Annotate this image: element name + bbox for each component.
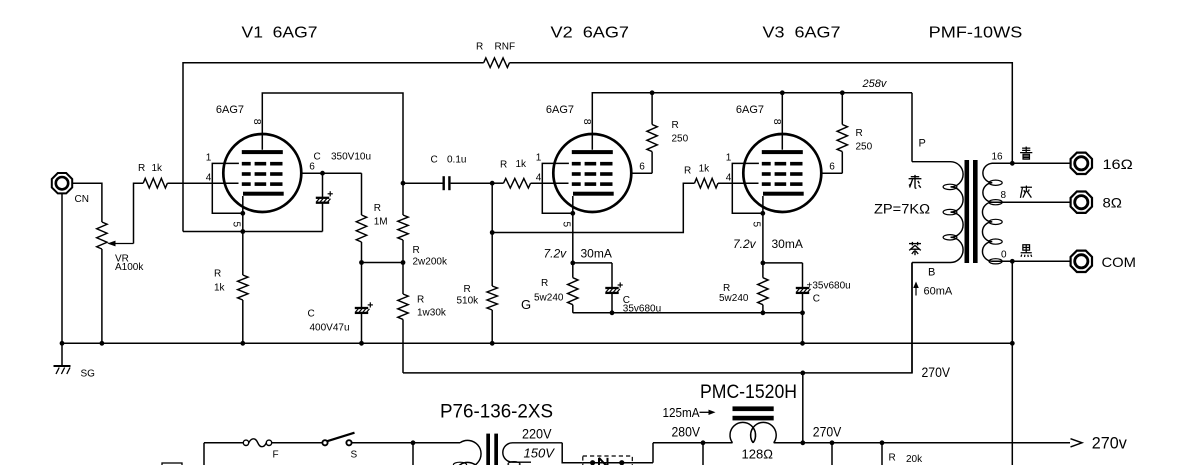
ground junction VR [100, 341, 105, 346]
junction rail V3 plate [780, 90, 785, 95]
svg-text:150V: 150V [524, 445, 556, 460]
svg-text:C: C [314, 152, 321, 163]
svg-text:SG: SG [81, 369, 96, 380]
wire V2 pin 6 stub [631, 172, 652, 174]
svg-text:1k: 1k [516, 159, 528, 170]
junction grid node [490, 181, 495, 186]
junction V3 cathode node [761, 261, 766, 266]
tube V3 cathode bar [763, 192, 804, 196]
terminal COM [1071, 251, 1092, 272]
junction cathode bus ground [800, 341, 805, 346]
tube V2 6AG7 envelope [553, 134, 631, 212]
wire V2 plate pin8 to B+ rail [592, 93, 912, 150]
svg-text:0.1u: 0.1u [447, 155, 466, 166]
tube V2 plate bar [572, 150, 613, 154]
wire G bus to V3 grid [492, 183, 694, 232]
transformer T1 secondary winding upper (16-8) [983, 163, 992, 202]
svg-text:30mA: 30mA [581, 246, 612, 260]
svg-text:G: G [521, 297, 531, 312]
svg-text:270V: 270V [813, 425, 842, 440]
capacitor C 0.1u coupling [443, 176, 445, 190]
wire inlet to fuse [204, 442, 244, 444]
svg-text:P76-136-2XS: P76-136-2XS [440, 402, 553, 423]
transformer T1 primary winding [912, 162, 963, 263]
resistor R RNF feedback [484, 58, 510, 68]
svg-text:R: R [684, 165, 691, 176]
svg-text:8: 8 [251, 119, 263, 125]
wire feedback left vertical [183, 63, 484, 232]
svg-text:R: R [374, 203, 381, 214]
wire choke to output node [774, 442, 1070, 444]
svg-text:PMC-1520H: PMC-1520H [700, 382, 797, 403]
svg-text:COM: COM [1102, 254, 1137, 270]
svg-text:PMF-10WS: PMF-10WS [929, 25, 1023, 42]
potentiometer VR A100k [97, 222, 107, 249]
junction R1M bottom node B [359, 260, 364, 265]
svg-text:C: C [813, 293, 820, 304]
svg-text:5: 5 [751, 222, 762, 228]
svg-text:C: C [308, 308, 315, 319]
svg-text:350V10u: 350V10u [331, 152, 371, 163]
wire 16 ohm tap [992, 162, 1071, 164]
wire rectifier up to 280V line [652, 443, 654, 463]
resistor R 5w240 V3 cathode [758, 278, 768, 305]
wire bleeder drop [881, 443, 883, 465]
tube V1 grid dashes [242, 162, 283, 186]
terminal 8 ohm [1071, 192, 1092, 213]
resistor R 1M screen feed [361, 173, 363, 215]
tube V2 cathode junction [570, 211, 575, 216]
wire feedback right to 16 ohm tap [510, 63, 1013, 164]
wire 220V drop to rectifier [562, 443, 583, 463]
junction V3 bypass cap bottom [800, 310, 805, 315]
svg-text:A100k: A100k [115, 262, 144, 273]
label kanji gray (8 tap) [1020, 186, 1032, 198]
wire V1 plate pin8 to node A [262, 93, 403, 215]
wire primary B down [911, 263, 913, 373]
label kanji black (0 tap) [1021, 245, 1032, 257]
svg-text:R: R [464, 284, 471, 295]
wire switch to primary [352, 442, 460, 444]
rectifier input dot [590, 460, 595, 465]
VR wiper arrow [112, 243, 134, 245]
svg-text:4: 4 [726, 173, 732, 184]
tube V1 cathode junction [240, 211, 245, 216]
svg-text:R: R [541, 278, 548, 289]
junction rail V3 R250 [840, 90, 845, 95]
junction V2 bypass cap bottom [610, 310, 615, 315]
wire coupling cap to grid node [451, 182, 493, 184]
capacitor C 400V47u decoupling [361, 263, 363, 309]
svg-text:16Ω: 16Ω [1103, 156, 1133, 172]
arrow 270v output [1071, 439, 1083, 447]
wire V2 cathode node to bypass cap [573, 262, 612, 264]
transformer T2 secondary 220V tap [503, 443, 562, 462]
svg-text:8: 8 [771, 119, 783, 125]
svg-text:R: R [214, 268, 221, 279]
svg-text:R: R [417, 294, 424, 305]
tube V3 cathode junction [760, 211, 765, 216]
svg-text:P: P [919, 138, 926, 150]
junction C400V47u ground [359, 341, 364, 346]
tube V1 pin 1 stub and shell-to-cathode bracket [212, 163, 243, 213]
tube V1 cathode bar [243, 192, 284, 196]
junction choke input cap [701, 440, 706, 445]
wire R 1k to V1 grid pin 4 [167, 182, 238, 184]
wire V3 cathode node to bypass cap [763, 262, 803, 264]
tube V3 pin 1 stub and shell-to-cathode bracket [732, 163, 763, 213]
label kanji blue (16 tap) [1020, 147, 1032, 160]
tube V2 cathode bar [573, 192, 614, 196]
wire V2 cathode down [572, 196, 574, 263]
wire CN to VR top [73, 183, 102, 222]
node A plate junction [401, 181, 406, 186]
svg-text:B: B [928, 266, 935, 278]
wire V1 cathode down [242, 196, 244, 275]
svg-text:60mA: 60mA [924, 285, 953, 297]
wire rectifier internal [583, 462, 653, 464]
resistor R 1k V1 cathode [238, 275, 248, 300]
svg-text:8Ω: 8Ω [1103, 195, 1123, 211]
wire filter cap 2 drop [831, 443, 833, 465]
svg-text:6AG7: 6AG7 [736, 104, 764, 116]
svg-text:250: 250 [672, 134, 689, 145]
svg-text:+35v680u: +35v680u [807, 280, 851, 291]
label kanji brown (primary bottom) [909, 242, 921, 255]
svg-text:6: 6 [639, 162, 645, 173]
wire node B horizontal [362, 262, 404, 264]
resistor R 250 V3 screen [841, 93, 843, 125]
svg-text:0: 0 [1001, 249, 1007, 260]
svg-text:7.2v: 7.2v [544, 246, 568, 260]
ground bus wire SG [62, 342, 1012, 344]
junction node B right [401, 260, 406, 265]
label 60mA with up arrow [915, 285, 917, 296]
svg-text:6: 6 [309, 162, 315, 173]
wire cathode bus to ground [802, 313, 804, 344]
svg-text:1M: 1M [374, 217, 388, 228]
tube V3 6AG7 envelope [743, 134, 821, 212]
rectifier dashed box [583, 456, 633, 465]
wire node A to coupling cap [403, 182, 443, 184]
svg-text:16: 16 [992, 151, 1004, 162]
tube V3 plate bar [762, 150, 803, 154]
wire fuse to switch [272, 442, 323, 444]
svg-text:R: R [476, 42, 483, 53]
transformer T2 primary winding [460, 440, 481, 465]
svg-text:2w200k: 2w200k [413, 256, 448, 267]
svg-text:1k: 1k [214, 282, 226, 293]
junction V2 cathode node [570, 261, 575, 266]
svg-text:RNF: RNF [495, 42, 516, 53]
svg-text:F: F [273, 450, 279, 461]
resistor R 1k V2 grid stopper [504, 178, 531, 188]
svg-text:125mA: 125mA [663, 405, 700, 420]
wire ground stub to SG symbol [61, 343, 63, 366]
wire 280V line to choke [653, 442, 733, 444]
svg-text:S: S [351, 450, 358, 461]
svg-text:7.2v: 7.2v [733, 237, 757, 251]
svg-text:CN: CN [75, 194, 89, 205]
svg-text:6: 6 [829, 162, 835, 173]
wire cathode return bus [573, 312, 803, 314]
wire V3 cathode down [762, 196, 764, 263]
svg-text:5w240: 5w240 [719, 293, 749, 304]
wire 8 ohm tap [992, 201, 1071, 203]
svg-text:1: 1 [206, 153, 212, 164]
svg-text:ZP=7KΩ: ZP=7KΩ [874, 202, 930, 217]
ground junction CN [60, 341, 65, 346]
svg-text:5w240: 5w240 [534, 292, 564, 303]
junction choke output riser [800, 440, 805, 445]
wire 0 tap [992, 260, 1071, 262]
terminal 16 ohm [1071, 153, 1092, 174]
svg-text:1w30k: 1w30k [417, 307, 447, 318]
wire B+ rail to primary P [911, 93, 913, 162]
choke L1 core [733, 406, 774, 411]
switch S [322, 440, 327, 445]
wire CN down to ground bus [61, 194, 63, 344]
resistor R 250 V2 screen [651, 93, 653, 125]
label kanji red (primary top) [909, 175, 922, 188]
svg-text:270v: 270v [1092, 434, 1127, 453]
svg-text:1: 1 [726, 153, 732, 164]
svg-text:20k: 20k [906, 454, 923, 465]
svg-text:220V: 220V [522, 426, 552, 441]
wire primary junction drop [412, 443, 414, 465]
rectifier N mark [598, 458, 600, 465]
transformer T1 secondary junction eyes [989, 180, 1002, 185]
junction V1 cathode resistor to ground [240, 341, 245, 346]
junction V3 cathode resistor bottom [761, 310, 766, 315]
resistor R 1k input grid stopper [143, 178, 167, 188]
svg-text:510k: 510k [457, 295, 480, 306]
wire riser to 270V line [802, 373, 804, 443]
svg-text:5: 5 [231, 222, 242, 228]
junction filter cap 2 [830, 440, 835, 445]
resistor R 5w240 V2 cathode [568, 278, 578, 305]
svg-text:1: 1 [536, 153, 542, 164]
wire V1 cathode feedback bracket [183, 231, 323, 233]
capacitor C 35v680u V3 bypass [802, 263, 804, 288]
wire wiper to R 1k [134, 183, 144, 243]
svg-text:128Ω: 128Ω [742, 447, 774, 462]
wire V3 plate pin8 to rail [781, 93, 783, 150]
resistor R 510k grid leak [491, 183, 493, 286]
junction R510k tap G bus [490, 230, 495, 235]
svg-text:C: C [431, 155, 438, 166]
junction bleeder R 20k [880, 440, 885, 445]
junction feedback 16 ohm tap [1010, 161, 1015, 166]
svg-text:5: 5 [561, 222, 572, 228]
svg-text:R: R [856, 128, 863, 139]
capacitor C 35v680u V2 bypass [611, 263, 613, 288]
svg-text:V3 6AG7: V3 6AG7 [763, 25, 841, 42]
tube V2 pin 1 stub and shell-to-cathode bracket [542, 163, 573, 213]
svg-text:1k: 1k [699, 164, 711, 175]
svg-text:6AG7: 6AG7 [216, 104, 244, 116]
wire 0 tap ground drop [1011, 261, 1013, 465]
svg-text:V2 6AG7: V2 6AG7 [551, 25, 630, 42]
svg-text:8: 8 [581, 119, 593, 125]
tube V2 grid dashes [572, 162, 613, 186]
junction primary top [411, 440, 416, 445]
svg-text:8: 8 [1001, 190, 1007, 201]
wire V3 pin 6 stub [821, 172, 842, 174]
svg-text:6AG7: 6AG7 [546, 104, 574, 116]
connector CN input jack [52, 173, 72, 193]
svg-text:270V: 270V [922, 365, 951, 380]
svg-text:4: 4 [206, 173, 212, 184]
svg-text:4: 4 [536, 173, 542, 184]
wire V1 screen pin 6 [301, 172, 361, 174]
svg-text:R: R [138, 163, 145, 174]
svg-text:1k: 1k [152, 163, 164, 174]
wire 270V line [403, 263, 912, 373]
svg-text:400V47u: 400V47u [310, 323, 350, 334]
junction rail V2 R250 [650, 90, 655, 95]
wire AC inlet riser [203, 443, 205, 465]
AC inlet box [162, 463, 182, 465]
ground symbol SG [54, 365, 71, 367]
fuse F [243, 440, 248, 445]
tube V1 6AG7 envelope [223, 134, 301, 212]
svg-text:280V: 280V [672, 425, 701, 440]
junction R510k ground [490, 341, 495, 346]
svg-text:258v: 258v [862, 78, 888, 90]
svg-text:R: R [889, 453, 896, 464]
svg-text:R: R [413, 245, 420, 256]
wire R1w30k to 270V line [402, 319, 404, 373]
choke L1 winding [730, 422, 756, 442]
transformer T2 secondary junction eye [508, 462, 520, 465]
transformer T1 core [965, 160, 970, 263]
transformer T2 core [486, 434, 490, 465]
svg-text:R: R [500, 160, 507, 171]
transformer T1 secondary winding lower (8-0) [982, 202, 992, 261]
tube V3 grid dashes [762, 162, 803, 186]
junction 0 tap at ground bus [1010, 341, 1015, 346]
svg-text:V1 6AG7: V1 6AG7 [242, 25, 318, 42]
junction 0 tap to ground drop [1010, 259, 1015, 264]
junction 270V riser [800, 371, 805, 376]
tube V1 plate bar [242, 150, 283, 154]
resistor R 1k V3 grid stopper [695, 178, 719, 188]
junction V1 pin6 bypass [320, 171, 325, 176]
svg-text:250: 250 [856, 142, 873, 153]
capacitor C 350V10u screen bypass [322, 173, 324, 198]
resistor R 2w200k plate load [398, 215, 408, 240]
rectifier output dot [619, 460, 624, 465]
junction V1 cathode to feedback line [240, 229, 245, 234]
svg-text:R: R [672, 120, 679, 131]
svg-text:30mA: 30mA [772, 237, 803, 251]
wire choke input cap drop [702, 443, 704, 465]
resistor R 1w30k decoupling [402, 263, 404, 295]
